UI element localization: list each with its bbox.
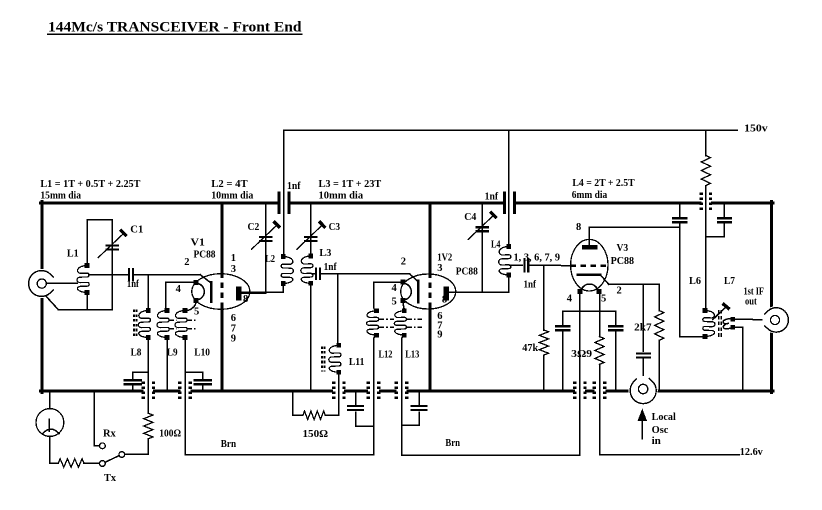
svg-text:in: in [652,435,661,447]
svg-text:3Ω9: 3Ω9 [571,348,592,360]
svg-text:9: 9 [437,330,442,341]
svg-text:C1: C1 [130,223,143,235]
svg-text:V3: V3 [617,242,629,254]
svg-text:100Ω: 100Ω [159,428,181,440]
svg-text:10mm dia: 10mm dia [211,190,254,202]
svg-text:1V2: 1V2 [437,252,452,263]
svg-text:Brn: Brn [221,438,236,450]
svg-text:5: 5 [392,296,397,307]
svg-text:4: 4 [176,284,182,295]
svg-text:12.6v: 12.6v [740,446,763,458]
svg-text:9: 9 [231,334,236,345]
svg-text:2: 2 [401,257,406,268]
svg-text:L6: L6 [689,275,701,287]
svg-text:L1 = 1T + 0.5T + 2.25T: L1 = 1T + 0.5T + 2.25T [40,178,141,190]
svg-text:144Mc/s TRANSCEIVER - Front En: 144Mc/s TRANSCEIVER - Front End [48,20,302,36]
svg-text:PC88: PC88 [456,265,478,277]
svg-text:L8: L8 [131,346,142,358]
svg-text:1: 1 [231,253,236,264]
svg-text:L2: L2 [265,253,275,265]
svg-text:6mm dia: 6mm dia [572,189,608,201]
svg-text:L1: L1 [67,247,79,259]
svg-text:1nf: 1nf [524,279,537,290]
svg-text:L13: L13 [405,348,419,360]
svg-text:Tx: Tx [104,472,116,484]
svg-text:1nf: 1nf [287,181,301,192]
svg-text:2: 2 [184,257,189,268]
svg-text:1nf: 1nf [324,262,338,273]
svg-text:Local: Local [652,411,676,423]
svg-text:L12: L12 [379,348,393,360]
svg-text:150v: 150v [744,123,768,135]
svg-text:L4: L4 [491,238,501,250]
svg-text:PC88: PC88 [611,255,635,267]
svg-text:3: 3 [231,264,236,275]
svg-text:1, 3, 6, 7, 9: 1, 3, 6, 7, 9 [514,252,561,263]
svg-text:C4: C4 [464,211,477,223]
svg-text:C2: C2 [248,221,260,233]
svg-text:8: 8 [576,222,581,233]
svg-text:4: 4 [567,293,573,304]
svg-text:15mm dia: 15mm dia [40,190,81,202]
svg-text:150Ω: 150Ω [303,428,329,440]
svg-text:out: out [745,296,757,308]
svg-text:10mm dia: 10mm dia [319,190,364,202]
svg-text:Brn: Brn [445,437,460,449]
svg-text:47k: 47k [522,342,539,354]
svg-text:L3: L3 [319,247,331,259]
svg-text:C3: C3 [329,221,341,233]
svg-text:5: 5 [194,306,199,317]
svg-text:L10: L10 [194,346,210,358]
svg-text:V1: V1 [191,237,205,249]
svg-text:L11: L11 [349,356,365,368]
svg-text:L3 = 1T + 23T: L3 = 1T + 23T [319,178,382,190]
svg-text:2: 2 [617,285,622,296]
svg-text:L7: L7 [724,275,735,287]
svg-text:PC88: PC88 [194,249,216,261]
svg-text:Rx: Rx [103,427,116,439]
svg-text:4: 4 [392,283,398,294]
svg-text:L9: L9 [167,346,178,358]
svg-text:L4 = 2T + 2.5T: L4 = 2T + 2.5T [572,177,635,189]
svg-text:5: 5 [601,293,606,304]
svg-text:3: 3 [437,263,442,274]
svg-text:L2 = 4T: L2 = 4T [211,178,248,190]
svg-text:1nf: 1nf [485,191,499,202]
